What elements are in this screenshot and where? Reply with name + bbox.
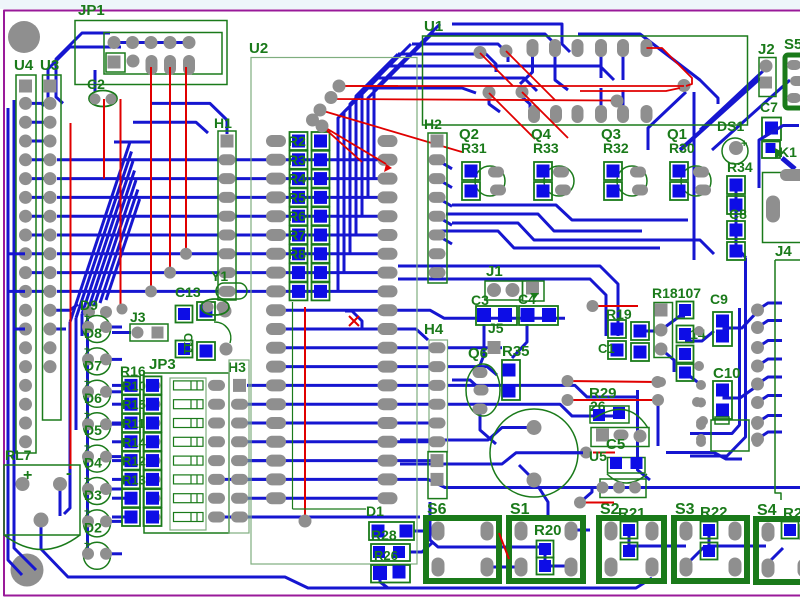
resistor R [122, 489, 140, 507]
buzzer LS1 [490, 409, 578, 497]
U4 pads [19, 80, 32, 93]
resistor R35 body [502, 360, 520, 400]
wire C2 stub [94, 70, 97, 92]
svg-text:C13: C13 [175, 284, 201, 300]
IC U1 outline [423, 36, 748, 125]
svg-text:C2: C2 [87, 76, 105, 92]
JP1 pads row1 [108, 36, 121, 49]
pad column x757 [751, 304, 764, 317]
diode D7 [84, 348, 111, 375]
diode D5 [84, 413, 111, 440]
svg-text:R18107: R18107 [652, 285, 701, 301]
relay K1 outline [763, 173, 800, 243]
H4 square pads [431, 454, 444, 467]
pads bottom right corner [696, 420, 706, 430]
resistor R15 [122, 395, 140, 413]
H1 pads [221, 135, 234, 148]
red wire x186 [185, 67, 187, 254]
red stub S6-S1 [499, 533, 509, 559]
transistor Q7 [590, 406, 629, 423]
svg-text:+: + [84, 312, 90, 323]
svg-text:R12: R12 [122, 454, 146, 469]
svg-text:J1: J1 [486, 263, 503, 280]
capacitor below C7 [762, 142, 780, 159]
svg-text:R10: R10 [122, 378, 146, 393]
wire D column vertical [86, 308, 89, 552]
via pads NE [333, 80, 346, 93]
resistor R10 [122, 376, 140, 394]
svg-text:RL7: RL7 [5, 447, 32, 463]
U1 via pads [474, 46, 487, 59]
svg-text:R26: R26 [374, 548, 398, 563]
svg-text:R34: R34 [727, 159, 753, 175]
red wire x120 [120, 99, 122, 309]
svg-text:R35: R35 [502, 343, 530, 360]
JP3 switch positions [174, 381, 204, 390]
connector JP1 inner outline [104, 33, 222, 75]
svg-text:R2: R2 [288, 133, 306, 149]
red stub S2 [580, 502, 614, 504]
svg-text:U4: U4 [14, 57, 34, 74]
svg-text:R21: R21 [618, 505, 646, 522]
red wire x170 [169, 67, 171, 273]
wire fan bottom verticals [64, 322, 70, 514]
capacitor bottom [371, 565, 410, 583]
svg-text:JP1: JP1 [78, 2, 105, 19]
mounting hole bottom-left [11, 554, 44, 587]
wire J1 loop inner [398, 279, 606, 336]
resistor R5 [290, 188, 308, 206]
svg-text:C8: C8 [729, 206, 747, 222]
red cross junction [349, 316, 359, 326]
lower gray pads U5 [600, 479, 646, 498]
U3 pads [44, 80, 57, 93]
diode D2 [84, 510, 111, 537]
red diagonal K [647, 48, 693, 86]
red stub U5 [593, 452, 615, 454]
wire bottom rows [240, 459, 436, 462]
U1 pads row B [528, 105, 540, 123]
diode D1 [84, 542, 111, 569]
svg-text:R4: R4 [288, 171, 306, 187]
svg-text:+: + [84, 539, 90, 550]
diode D9 pads [83, 306, 95, 318]
resistor R2 [290, 132, 308, 150]
svg-text:R13: R13 [122, 472, 146, 487]
svg-text:C4: C4 [518, 291, 536, 307]
connector H2 outline [428, 133, 447, 283]
wire U1 inner stubs [555, 56, 568, 90]
svg-text:C10: C10 [713, 365, 741, 382]
wire J3 stub [112, 331, 131, 334]
resistor R row8 [290, 282, 308, 300]
wire mid rows to right [283, 310, 565, 318]
U2 right pads [378, 135, 398, 147]
svg-text:D2: D2 [84, 519, 102, 535]
svg-text:C5: C5 [606, 436, 625, 453]
svg-text:C11: C11 [181, 333, 195, 355]
svg-text:S5: S5 [784, 36, 800, 53]
svg-text:R28: R28 [371, 527, 397, 543]
svg-text:D4: D4 [84, 455, 102, 471]
diode D3 [84, 478, 111, 505]
svg-text:R3: R3 [288, 152, 306, 168]
red diagonals U1 [480, 53, 513, 86]
pad column mid right [654, 303, 673, 358]
wire jog row9-row10 [345, 311, 362, 329]
wire stubs left edge [9, 252, 25, 255]
svg-text:+: + [84, 377, 90, 388]
transistor U5 lower [608, 458, 646, 474]
svg-text:U3: U3 [40, 57, 59, 74]
svg-text:R32: R32 [603, 140, 629, 156]
svg-text:R22: R22 [700, 504, 728, 521]
svg-text:D1: D1 [366, 503, 384, 519]
svg-text:R8: R8 [288, 246, 306, 262]
H2 pads [431, 135, 444, 148]
svg-text:+: + [84, 344, 90, 355]
wire left edge verticals [14, 100, 36, 570]
wire K1 blue [759, 126, 799, 189]
resistor R [122, 508, 140, 526]
red wire x104 [103, 99, 105, 179]
svg-text:J2: J2 [758, 41, 775, 58]
wire H3 to mid col [247, 384, 268, 387]
svg-text:Y1: Y1 [211, 268, 228, 284]
resistor R6 [290, 207, 308, 225]
svg-text:R31: R31 [461, 140, 487, 156]
IC U4 outline [16, 75, 36, 453]
U2 left pads [266, 135, 286, 147]
capacitor C4 box [523, 281, 545, 301]
svg-text:H3: H3 [228, 359, 246, 375]
green box bottom right [711, 420, 749, 451]
svg-text:H2: H2 [424, 116, 442, 132]
wire mid right elbows [640, 330, 655, 333]
red net lines U1 [339, 85, 684, 87]
via pads mid [694, 326, 704, 336]
svg-text:D6: D6 [84, 390, 102, 406]
diode D6 [84, 380, 111, 407]
wire U1 long right line [578, 34, 718, 104]
svg-text:U2: U2 [249, 40, 268, 57]
resistor R row7 [290, 264, 308, 282]
svg-text:+: + [84, 474, 90, 485]
svg-text:R30: R30 [669, 140, 695, 156]
resistor R12 [122, 452, 140, 470]
resistor R14 [122, 433, 140, 451]
diode D4 [84, 445, 111, 472]
resistor R7 [290, 226, 308, 244]
svg-text:R14: R14 [122, 435, 147, 450]
svg-text:Q6: Q6 [468, 345, 488, 362]
wire bottom D1 to S6 [414, 530, 437, 533]
wire R34 vertical [736, 190, 746, 258]
net line D1 [292, 302, 294, 509]
svg-text:J3: J3 [130, 309, 146, 325]
svg-text:D7: D7 [84, 357, 102, 373]
svg-text:R11: R11 [122, 416, 145, 431]
wire D right stubs [106, 326, 122, 329]
diode D8 [84, 316, 111, 343]
svg-text:+: + [741, 138, 747, 150]
svg-text:U1: U1 [424, 18, 443, 35]
wire buzzer traces [400, 428, 534, 441]
capacitor C12 pads [197, 302, 215, 320]
svg-text:+: + [84, 506, 90, 517]
wire fan top elbows [114, 141, 152, 144]
H4 pads [429, 342, 446, 353]
wire H2 stubs [437, 160, 452, 169]
wire J2 S5 diagonals [700, 68, 766, 130]
wire JP1 to left [56, 33, 110, 103]
wire S row links [430, 502, 540, 547]
connector JP1 outline [75, 21, 227, 85]
resistor R4 [290, 170, 308, 188]
svg-text:J5: J5 [488, 320, 504, 336]
svg-text:U5: U5 [589, 448, 607, 464]
JP3 pads mid [208, 380, 225, 391]
svg-text:+: + [84, 442, 90, 453]
svg-text:D9: D9 [80, 297, 98, 313]
mounting hole top-left [8, 21, 40, 53]
red fan to R array [339, 85, 398, 87]
svg-text:C1: C1 [598, 341, 615, 356]
svg-text:D3: D3 [84, 487, 102, 503]
wire J1 loop outer [398, 266, 618, 336]
wire RL to bottom [41, 520, 652, 588]
svg-text:C7: C7 [760, 99, 778, 115]
red wire x70 [70, 123, 72, 469]
U1 pads row A [527, 39, 539, 57]
JP1 pin1 pad outline [106, 53, 125, 72]
svg-text:C9: C9 [710, 291, 728, 307]
svg-text:-: - [66, 465, 71, 482]
svg-text:R33: R33 [533, 140, 559, 156]
capacitor C11 [176, 306, 193, 323]
wire Q6 area [480, 409, 496, 444]
wire JP1 row1 horizontal [110, 41, 193, 44]
JP3 pads left [148, 380, 161, 390]
svg-text:R6: R6 [288, 208, 306, 224]
wire rows U4-U3 pair links [26, 102, 51, 105]
H3 pads [233, 379, 246, 392]
wire NE diagonal bundle to U1 [338, 88, 368, 291]
resistor R8 [290, 245, 308, 263]
wire JP3 left stubs [112, 384, 125, 387]
capacitor C2 [89, 91, 117, 107]
red wires R29 [567, 381, 657, 382]
IC U2 outline [251, 58, 417, 565]
wire rows 9-10 [50, 304, 78, 310]
resistor R11 [122, 414, 140, 432]
IC U3 outline [43, 75, 62, 420]
capacitor SMD row [476, 306, 517, 325]
capacitor C5 body [591, 428, 649, 447]
svg-text:DS1: DS1 [717, 118, 744, 134]
svg-text:R20: R20 [534, 522, 562, 539]
svg-text:J4: J4 [775, 243, 792, 260]
pad column x701 [696, 380, 706, 390]
svg-text:H4: H4 [424, 321, 444, 338]
wire horizontal rows mid-left [57, 158, 380, 161]
svg-text:JP3: JP3 [149, 356, 176, 373]
red wire x150 [150, 67, 152, 291]
svg-text:R7: R7 [288, 227, 306, 243]
resistor R13 [122, 470, 140, 488]
svg-text:R5: R5 [288, 189, 306, 205]
wire right bottom elbows [690, 308, 740, 434]
svg-text:R15: R15 [122, 397, 146, 412]
resistor R26 [371, 544, 410, 561]
wire right col stubs [758, 303, 783, 310]
svg-text:+: + [84, 409, 90, 420]
red wire x305 [304, 307, 306, 521]
svg-text:R2: R2 [783, 505, 800, 522]
svg-text:H1: H1 [214, 115, 232, 131]
wire bundle left fan diagonals (steep) [70, 142, 130, 322]
JP1 pads row2 [108, 56, 121, 69]
resistor R3 [290, 151, 308, 169]
diode D1 body [369, 522, 414, 540]
wire Q row nest [452, 205, 688, 220]
red stub R19 [592, 305, 638, 307]
svg-text:D5: D5 [84, 422, 102, 438]
svg-text:D8: D8 [84, 325, 102, 341]
connector H1 outline [218, 131, 236, 300]
